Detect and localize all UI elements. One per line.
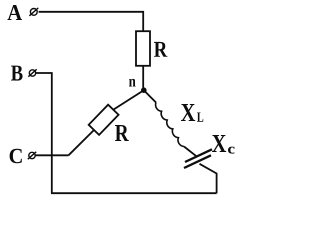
label C — [10, 149, 22, 163]
terminal B — [28, 69, 36, 76]
label XL subscript L — [197, 113, 203, 122]
capacitor Xc plate 2 — [184, 155, 211, 168]
label R2 — [115, 125, 129, 141]
label B — [11, 66, 23, 81]
resistor R1 (phase A) — [136, 31, 150, 66]
label XL — [181, 104, 195, 121]
terminal A — [29, 8, 38, 16]
wire node n to inductor XL — [144, 90, 156, 102]
wire B down to bottom rail — [36, 73, 52, 193]
wire C to resistor R2 — [69, 130, 95, 155]
wire capacitor to bottom rail — [200, 164, 217, 193]
wire A to resistor R1 — [39, 12, 144, 31]
label Xc subscript c — [228, 147, 235, 154]
label A — [7, 5, 22, 20]
wire C horizontal — [35, 154, 68, 156]
node n — [141, 87, 147, 93]
bottom rail wire — [51, 192, 217, 194]
label n — [129, 79, 136, 87]
inductor XL — [156, 103, 184, 147]
label R1 — [154, 42, 167, 57]
resistor R2 (phase C) — [89, 105, 119, 135]
wire inductor to capacitor — [184, 147, 196, 157]
capacitor Xc plate 1 — [185, 149, 212, 162]
terminal C — [28, 152, 36, 159]
wire R2 to node n — [113, 90, 144, 110]
wire R1 to node n — [142, 66, 144, 91]
label Xc — [212, 135, 226, 152]
